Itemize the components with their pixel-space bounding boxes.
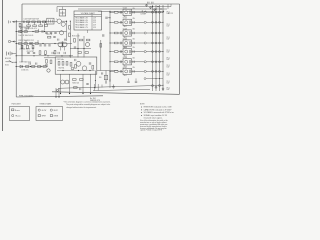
parts table column divider	[91, 15, 93, 30]
glow lamp GL102	[123, 19, 132, 25]
GL102 input res	[114, 21, 118, 23]
res R108 vertical	[69, 26, 71, 30]
GL105 input res	[114, 51, 118, 53]
GL102 output ticks	[132, 21, 134, 23]
bottom stub s3	[101, 85, 103, 88]
cap C103	[41, 30, 43, 32]
svg-text:changed without notice for imp: changed without notice for improvement.	[66, 106, 97, 109]
GL103 output ticks	[132, 32, 134, 34]
below dots2	[90, 93, 91, 94]
cap C113 vertical	[74, 46, 76, 48]
svg-text:TP-1: TP-1	[167, 81, 170, 83]
svg-text:NE-2: NE-2	[124, 75, 127, 77]
legend right sym 3	[50, 109, 52, 111]
IC block U1	[47, 18, 54, 24]
transistor Q106	[86, 43, 90, 47]
GL103 bus wire	[146, 32, 163, 34]
svg-text:VOLTAGE CHART: VOLTAGE CHART	[81, 12, 95, 15]
svg-text:NEON: NEON	[54, 116, 58, 118]
GL107 output ticks	[132, 70, 134, 72]
GL106 output wire	[132, 61, 145, 63]
svg-text:TP-1: TP-1	[167, 57, 170, 59]
GL103 output wire	[132, 32, 145, 34]
transistor Q201	[76, 61, 81, 66]
svg-text:82k: 82k	[133, 29, 135, 31]
GL101 output pin	[144, 11, 146, 13]
GL103 input wire	[110, 32, 114, 34]
bus junctions row 7	[152, 70, 154, 72]
below wire 1	[60, 74, 62, 93]
GL105 output wire	[132, 51, 145, 53]
svg-text:8.4V: 8.4V	[167, 67, 170, 69]
glow lamp GL101	[123, 9, 132, 15]
cap C104 vertical	[45, 31, 47, 33]
svg-text:82k: 82k	[133, 47, 135, 49]
speaker SP201	[61, 80, 65, 84]
svg-text:SIGNAL: input condition DC 3V: SIGNAL: input condition DC 3V	[144, 114, 168, 117]
legend right sym 4	[50, 115, 52, 117]
svg-text:R215 620: R215 620	[73, 82, 80, 84]
svg-text:P.W.B. ASSY: P.W.B. ASSY	[12, 103, 22, 106]
res R206 vertical	[50, 60, 52, 64]
svg-text:10k 4.7k 100k 1k 0.05: 10k 4.7k 100k 1k 0.05	[19, 35, 34, 37]
schematic frame top border	[22, 3, 180, 5]
GL106 input res	[114, 61, 118, 63]
GL104 output pin	[144, 42, 146, 44]
res R130 vertical	[45, 51, 47, 55]
long wire B	[93, 89, 150, 90]
GL104 output wire	[132, 42, 145, 44]
paper left edge line	[2, 0, 4, 131]
aux input J2	[8, 40, 10, 42]
mid vertical v2	[105, 71, 107, 85]
legend left sym 1	[12, 109, 14, 111]
row4 ticks	[51, 52, 53, 54]
svg-text:* This schematic diagram is cu: * This schematic diagram is current as s…	[63, 100, 111, 103]
res R306 vertical	[100, 44, 102, 48]
GL104 input res	[114, 42, 118, 44]
svg-text:TP-1: TP-1	[167, 87, 170, 89]
res R131b vertical	[54, 50, 56, 54]
parts table header line	[74, 14, 102, 16]
bus line B2	[155, 5, 157, 91]
svg-text:TR101 BASE 0.3V: TR101 BASE 0.3V	[75, 17, 89, 20]
svg-text:TP-1: TP-1	[167, 37, 170, 39]
svg-text:GL104: GL104	[123, 38, 127, 40]
transistor Q103	[59, 31, 63, 35]
svg-text:GL101: GL101	[123, 8, 127, 10]
transistor Q101	[57, 19, 61, 23]
res R302	[32, 66, 35, 68]
svg-text:copied. Printed in Japan 1978: copied. Printed in Japan 1978	[140, 129, 162, 131]
res R118 vertical	[21, 45, 23, 49]
cap C108 vertical	[44, 44, 46, 46]
svg-text:OSC 1kHz: OSC 1kHz	[57, 59, 64, 61]
top right pins	[146, 4, 148, 6]
svg-text:R121 C110 R123 C112: R121 C110 R123 C112	[19, 40, 35, 42]
bus line B4	[162, 5, 164, 91]
volume VR201	[46, 60, 48, 64]
GL105 bus wire	[146, 51, 163, 53]
res R113	[35, 31, 38, 33]
GL106 output ticks	[132, 61, 134, 63]
svg-text:D101 R110 C115: D101 R110 C115	[20, 61, 32, 63]
res R304	[43, 66, 46, 68]
junction row2	[16, 31, 17, 32]
svg-text:NE-2: NE-2	[124, 26, 127, 28]
svg-text:S101: S101	[5, 64, 9, 66]
svg-text:8.4V: 8.4V	[167, 75, 170, 77]
svg-text:4.2V: 4.2V	[93, 25, 96, 27]
GL104 output ticks	[132, 42, 134, 44]
bus line B1	[152, 5, 154, 91]
cap C109 vertical	[48, 44, 50, 46]
GL107 input res	[114, 71, 118, 73]
parts table header line2	[74, 15, 102, 17]
row1 sub res c	[39, 25, 43, 27]
svg-text:82k: 82k	[133, 67, 135, 69]
extra right row y78.6	[146, 78, 163, 80]
svg-text:8.4V: 8.4V	[167, 89, 170, 91]
cap C300	[105, 17, 107, 19]
cap C101	[23, 21, 25, 23]
res R303	[38, 66, 41, 68]
svg-text:SYMBOL MARK: SYMBOL MARK	[40, 103, 53, 106]
cap C301 vertical	[102, 34, 104, 36]
GL102 output wire	[132, 21, 145, 23]
bus junctions row 4	[152, 42, 154, 44]
glow lamp GL106	[123, 59, 132, 65]
GL107 input ticks	[119, 70, 121, 73]
U1 inner tick	[48, 20, 50, 23]
junction mid	[77, 48, 78, 49]
GL103 input res	[114, 32, 118, 34]
svg-text:GL106: GL106	[123, 57, 127, 59]
mid small res	[48, 36, 51, 38]
vertical wire x66	[66, 21, 68, 41]
glow lamp GL104	[123, 40, 132, 46]
wire diode row	[16, 66, 48, 68]
legend box right	[36, 107, 63, 121]
svg-text:GL102: GL102	[123, 18, 127, 20]
svg-text:NOTE:: NOTE:	[140, 104, 145, 106]
svg-text:8.4V: 8.4V	[167, 83, 170, 85]
bus junctions row 5	[152, 51, 154, 53]
switch S101	[6, 61, 12, 63]
res R216	[74, 87, 78, 89]
legend right sym 1	[38, 109, 40, 111]
svg-text:B101 3V: B101 3V	[5, 58, 12, 60]
GL105 output pin	[144, 51, 146, 53]
svg-text:1k 330 47u: 1k 330 47u	[21, 70, 29, 72]
bottom stub s1	[93, 84, 95, 91]
GL106 output pin	[144, 61, 146, 63]
GL106 bus wire	[146, 61, 163, 63]
GL103 input ticks	[119, 32, 121, 35]
cap C202 vertical	[86, 82, 88, 84]
GL102 output pin	[144, 21, 146, 23]
res R127	[78, 52, 81, 54]
cap C106 vertical	[54, 31, 56, 33]
res R102	[32, 21, 35, 23]
osc top ticks	[74, 59, 76, 61]
wire row4	[16, 55, 73, 57]
parts table box	[74, 11, 102, 30]
diode D101	[20, 65, 23, 68]
GL104 input ticks	[119, 42, 121, 45]
svg-text:RESISTORS: indicated in ohm, 1: RESISTORS: indicated in ohm, 1/4W	[144, 106, 172, 109]
svg-text:82k: 82k	[133, 18, 135, 20]
cap C310 vertical	[127, 80, 129, 82]
osc small circle	[71, 67, 74, 70]
mid vertical v1	[94, 71, 96, 89]
res R208	[80, 79, 84, 81]
svg-text:SPKR: SPKR	[42, 116, 47, 118]
res R202 vertical	[62, 62, 64, 66]
long wire A	[58, 85, 163, 88]
switch wire	[12, 61, 17, 63]
res R114	[19, 43, 22, 45]
svg-text:TP-1: TP-1	[167, 50, 170, 52]
below ticks2	[79, 88, 81, 90]
svg-text:GL107: GL107	[123, 67, 127, 69]
GL107 output wire	[132, 70, 145, 72]
GL105 output ticks	[132, 50, 134, 52]
GL105 input wire	[110, 51, 114, 53]
cap C105 vertical	[50, 31, 52, 33]
res R128	[85, 52, 88, 54]
svg-text:GL105: GL105	[123, 47, 127, 49]
mid small cap	[53, 36, 55, 38]
bus junctions row 6	[152, 61, 154, 63]
GL101 output wire	[132, 11, 145, 13]
GL104 input wire	[110, 42, 114, 44]
junction row3	[16, 43, 17, 44]
svg-text:3.2V: 3.2V	[93, 22, 96, 24]
row1 sub res d	[44, 25, 47, 27]
top bus wire 2	[57, 6, 171, 8]
svg-text:CAPACITORS: indicated in uF 50: CAPACITORS: indicated in uF 50WV	[144, 108, 173, 111]
vertical wire x70	[69, 21, 71, 58]
res R120 vertical	[32, 45, 34, 49]
bus junctions row 3	[152, 32, 154, 34]
res R126	[87, 39, 90, 41]
transistor Q202	[82, 66, 87, 71]
below wire 2	[69, 74, 71, 93]
row2 stub b	[38, 29, 40, 32]
wire into box	[44, 57, 55, 59]
res R310	[104, 75, 107, 80]
GL101 input wire	[110, 11, 114, 13]
svg-text:R29 C31: R29 C31	[47, 34, 53, 36]
schematic frame left border	[21, 4, 23, 62]
pwb outline bottom line	[16, 96, 103, 97]
svg-text:82k: 82k	[133, 39, 135, 41]
osc junctions	[62, 70, 63, 71]
res R209 vertical	[75, 65, 77, 69]
GL102 bus wire	[146, 21, 163, 23]
svg-text:82k: 82k	[133, 8, 135, 10]
schematic frame right border	[179, 4, 181, 94]
legend box left	[10, 107, 30, 121]
Q101 leads	[56, 19, 57, 20]
wire row1	[16, 21, 57, 23]
GL101 output ticks	[132, 11, 134, 13]
oscillator section box	[55, 57, 97, 74]
GL105 input ticks	[119, 50, 121, 53]
res R205 vertical	[92, 66, 94, 70]
GL101 input ticks	[119, 11, 121, 14]
transformer T101	[58, 42, 63, 47]
svg-text:8.4V: 8.4V	[167, 52, 170, 54]
wire row2	[16, 31, 66, 33]
svg-text:2.2V: 2.2V	[93, 20, 96, 22]
antenna ticks above frame	[147, 2, 149, 4]
wire mid join	[97, 70, 118, 72]
below wire 4	[90, 74, 92, 93]
res R201 vertical	[58, 62, 60, 66]
svg-text:12V AC: 12V AC	[141, 12, 146, 15]
svg-text:5.2V: 5.2V	[93, 27, 96, 29]
svg-text:The parts rating and/or assemb: The parts rating and/or assembly diagram…	[66, 103, 110, 106]
legend left sym 2	[12, 115, 14, 117]
svg-text:1.2V: 1.2V	[93, 18, 96, 20]
top bus wire 3	[78, 8, 167, 10]
bus line B3	[159, 5, 161, 91]
diode junctions	[16, 66, 17, 67]
vert wire x84	[83, 36, 85, 58]
svg-text:8.4V: 8.4V	[167, 39, 170, 41]
res R110	[19, 31, 22, 33]
res R301	[26, 66, 29, 68]
res R125	[80, 39, 83, 41]
input arrow	[13, 21, 15, 23]
GL107 bus wire	[146, 70, 163, 72]
bus junctions row 2	[152, 21, 154, 23]
res R109 vertical	[69, 33, 71, 37]
svg-text:8.4V: 8.4V	[167, 59, 170, 61]
vert wire x78	[77, 34, 79, 58]
junction row1	[16, 21, 17, 22]
mid dots	[105, 81, 106, 82]
res R106 vertical	[19, 23, 21, 27]
feed bus vertical	[109, 11, 111, 82]
cap C311 vertical	[135, 80, 137, 82]
row4 ticks b	[63, 52, 65, 54]
res R117	[35, 43, 38, 45]
res R124 vertical	[74, 39, 76, 43]
glow lamp GL103	[123, 30, 132, 36]
below wire 3	[82, 74, 84, 93]
svg-text:TR-xxxx: TR-xxxx	[15, 116, 21, 118]
bus bottom pins	[152, 85, 154, 87]
transistor Q102	[61, 22, 65, 26]
diode row hatch	[28, 63, 30, 65]
res R204 vertical	[70, 63, 72, 67]
row12 vstub	[21, 24, 23, 31]
res R103	[37, 21, 40, 23]
glow lamp GL107	[123, 68, 132, 74]
cap C107 vertical	[39, 44, 41, 46]
svg-text:BUZZ: BUZZ	[54, 110, 58, 112]
wire mid h48	[70, 48, 91, 50]
gnd G302	[113, 85, 115, 87]
svg-text:R111 R113 C103: R111 R113 C103	[19, 27, 30, 29]
junction row4	[16, 55, 17, 56]
note bullet list	[141, 107, 142, 108]
vert wire x100	[100, 40, 102, 71]
pwb outline left rail	[15, 20, 17, 97]
legend right sym 2	[38, 115, 40, 117]
svg-text:No. 1101: No. 1101	[90, 98, 96, 100]
top bus wire 4	[98, 10, 164, 12]
svg-text:PWB-1101 ASSY: PWB-1101 ASSY	[19, 95, 34, 98]
svg-text:R52 R54: R52 R54	[59, 67, 65, 69]
below junctions	[60, 93, 61, 94]
top inner corner drop	[56, 7, 58, 12]
trimmer TC1	[59, 10, 65, 17]
osc inner wire	[57, 70, 95, 72]
battery B101	[6, 52, 8, 56]
svg-text:R45: R45	[99, 77, 102, 79]
transformer T201	[47, 69, 50, 72]
svg-text:R131 C118: R131 C118	[72, 36, 80, 38]
res R111	[24, 31, 27, 33]
GL104 bus wire	[146, 42, 163, 44]
GL102 input wire	[110, 21, 114, 23]
GL102 input ticks	[119, 21, 121, 24]
parts table stub below	[87, 30, 89, 33]
res R116	[30, 43, 33, 45]
cap C115 vertical	[33, 51, 35, 53]
svg-text:8.4V: 8.4V	[167, 26, 170, 28]
GL106 input ticks	[119, 61, 121, 64]
svg-text:GL 12V: GL 12V	[168, 13, 173, 15]
res R104	[42, 21, 45, 23]
row3 stub a	[25, 40, 27, 44]
cap C201 vertical	[89, 62, 91, 64]
svg-text:TP-1: TP-1	[167, 73, 170, 75]
GL107 input wire	[110, 70, 114, 72]
row1 sub res b	[33, 25, 37, 27]
svg-text:TP-1: TP-1	[167, 65, 170, 67]
schematic frame bottom border	[52, 92, 180, 95]
bottom ticks T1	[55, 88, 57, 97]
svg-text:82k: 82k	[133, 57, 135, 59]
res R115	[24, 43, 27, 45]
res R207	[73, 79, 77, 81]
svg-text:VOLTAGES: measured with VTVM a: VOLTAGES: measured with VTVM at no	[144, 111, 174, 114]
input jack J1	[8, 20, 10, 23]
GL101 input res	[114, 11, 118, 13]
svg-text:VR: VR	[44, 54, 47, 56]
wire row3	[16, 43, 72, 45]
row34 vstub	[21, 47, 23, 56]
GL106 input wire	[110, 61, 114, 63]
top right drops	[146, 4, 148, 7]
GL103 output pin	[144, 32, 146, 34]
row1 sub res a	[27, 25, 31, 27]
glow lamp GL105	[123, 49, 132, 55]
res R203 vertical	[66, 62, 68, 66]
row2 vertical tick	[20, 27, 22, 29]
svg-text:GLOW: GLOW	[42, 110, 47, 112]
GL107 output pin	[144, 70, 146, 72]
row2 stub a	[25, 29, 27, 32]
svg-text:2.2k 56k 330 47: 2.2k 56k 330 47	[20, 48, 31, 50]
mid ticks	[101, 72, 103, 74]
bottom stub s2	[97, 84, 99, 91]
